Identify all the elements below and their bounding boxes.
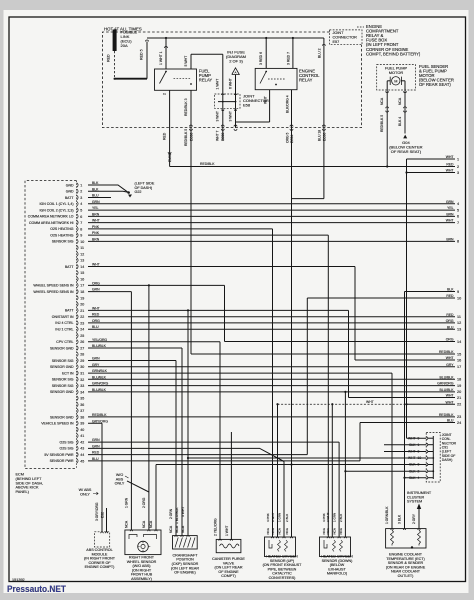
fuel pump motor symbol (392, 77, 400, 85)
svg-text:3 WHT: 3 WHT (181, 507, 185, 517)
wire riser ORG row17 to wheel sensor pin2 (148, 285, 150, 530)
svg-text:1: 1 (457, 157, 459, 161)
svg-text:2 ORG: 2 ORG (142, 497, 146, 508)
svg-text:1: 1 (418, 443, 420, 447)
joint connector C91 dashed box (426, 433, 440, 483)
wire horiz feed to E58 (191, 53, 223, 55)
bus wire hot feed (147, 37, 324, 39)
wire C91 pin 9 WHT (407, 437, 427, 439)
svg-text:RED/BLK: RED/BLK (439, 350, 454, 354)
ECM pin 44 (77, 452, 78, 457)
ECM pin 42 (77, 440, 78, 445)
svg-text:23: 23 (457, 415, 461, 419)
svg-text:WHT: WHT (92, 219, 100, 223)
svg-text:18: 18 (80, 290, 84, 294)
svg-text:37: 37 (80, 409, 84, 413)
svg-text:WHT: WHT (92, 306, 100, 310)
svg-text:1 WHT 1: 1 WHT 1 (159, 51, 163, 65)
svg-text:BLU: BLU (92, 194, 99, 198)
svg-text:SENSOR SIG: SENSOR SIG (52, 378, 74, 382)
svg-text:G22: G22 (135, 190, 142, 194)
wire C91 pin 10 WHT (188, 457, 426, 459)
heated oxygen sensor upstream box (265, 537, 296, 557)
wire ECM pin 43 O2S sig to upstream GRN diagonal (88, 448, 284, 461)
svg-text:COMM AREA NETWORK HI: COMM AREA NETWORK HI (29, 221, 74, 225)
ECM pin 22 (77, 314, 78, 319)
svg-text:SENSOR SIG: SENSOR SIG (52, 384, 74, 388)
wire to terminal 1 WHT (407, 158, 456, 160)
svg-text:3 WHT: 3 WHT (326, 513, 330, 523)
wire riser CKP WHT (187, 310, 189, 535)
svg-text:O2S HEATING: O2S HEATING (50, 227, 74, 231)
svg-text:44: 44 (80, 453, 84, 457)
svg-text:45: 45 (80, 459, 84, 463)
wire C91 pin 1 BLK (384, 444, 426, 446)
wire riser HO2S down PNK (327, 235, 329, 537)
svg-text:1 GRN/BLK: 1 GRN/BLK (385, 506, 389, 524)
wire to terminal 14 ORG (225, 341, 456, 343)
wire riser CKP BLU/BLK (181, 348, 183, 536)
ECM pin 39 (77, 421, 78, 426)
svg-text:RELAY: RELAY (199, 78, 213, 83)
svg-text:ON/START IN: ON/START IN (52, 315, 74, 319)
wire riser WHT terminal 1 chain to C91 (406, 159, 408, 438)
ECM pin 36 (77, 402, 78, 407)
svg-text:RED/BLK 3: RED/BLK 3 (184, 98, 188, 116)
svg-text:O2S SIG: O2S SIG (59, 440, 73, 444)
ECM pin 3 (77, 195, 78, 200)
svg-text:14: 14 (80, 265, 84, 269)
wire fusible link to RED 5 riser (115, 78, 147, 80)
wire ECM pin 31 ECT IN to ECT sensor riser (88, 372, 392, 374)
svg-text:2: 2 (418, 469, 420, 473)
svg-text:WHT: WHT (408, 436, 416, 440)
joint connector E57 dashed box (330, 30, 363, 45)
svg-text:BATT: BATT (65, 309, 75, 313)
wire ECM pin 21 BATT to risers (88, 309, 349, 311)
svg-text:5V SENSOR PWR: 5V SENSOR PWR (44, 453, 74, 457)
svg-text:12: 12 (457, 321, 461, 325)
wire ECM pin 39 vehicle speed to ABS riser (88, 422, 102, 424)
wire ECM pin 8 O2S heating to HO2S upstream (88, 228, 273, 230)
wire ECM pin 14 BATT to terminal 16 riser (88, 266, 355, 268)
svg-text:5: 5 (457, 208, 459, 212)
svg-text:GRN/BLK: GRN/BLK (92, 369, 108, 373)
svg-text:1: 1 (80, 183, 82, 187)
connector arcs at dashed border crossings (190, 125, 193, 127)
svg-text:E57: E57 (333, 40, 340, 44)
svg-text:RED: RED (106, 54, 110, 62)
ECT thermistor left (391, 530, 394, 546)
wire ECM pin 2 GND to G22 (88, 191, 128, 192)
svg-text:36: 36 (80, 403, 84, 407)
svg-text:BLU/BLK: BLU/BLK (440, 388, 455, 392)
svg-text:IGN COIL 1 (CYL 1,4): IGN COIL 1 (CYL 1,4) (40, 202, 74, 206)
svg-text:NCA: NCA (149, 520, 153, 528)
ECM pin 5 (77, 208, 78, 213)
svg-text:MANIFOLD): MANIFOLD) (327, 572, 347, 576)
svg-text:NCA: NCA (380, 97, 384, 105)
E58 internal bus (218, 101, 236, 103)
wire to terminal 20 BLU/BLK (88, 391, 455, 393)
wire motor right lead (404, 81, 406, 90)
svg-text:YEL: YEL (447, 206, 454, 210)
svg-text:SENSOR PWR: SENSOR PWR (50, 459, 74, 463)
wire to terminal 3 WHT (407, 172, 456, 174)
ECM pin 25 (77, 333, 78, 338)
svg-text:3: 3 (418, 463, 420, 467)
svg-text:10: 10 (418, 456, 422, 460)
svg-text:BLU: BLU (92, 457, 99, 461)
canister purge valve box (216, 539, 241, 552)
wire BLU elbow to ground chain (292, 198, 324, 200)
CKP hatch (175, 538, 178, 548)
svg-text:BLU/BLK: BLU/BLK (440, 375, 455, 379)
ECM pin 7 (77, 220, 78, 225)
wire ECM pin 1 GND to G22 (88, 185, 128, 192)
svg-text:WHT: WHT (446, 169, 454, 173)
svg-text:DASH): DASH) (442, 458, 453, 462)
fuel pump relay box (155, 69, 197, 90)
C91 internal bus (432, 436, 434, 479)
svg-text:3 GRY/ORG: 3 GRY/ORG (95, 502, 99, 521)
svg-text:SENSOR GND: SENSOR GND (50, 415, 74, 419)
svg-text:32: 32 (80, 378, 84, 382)
svg-text:1 WHT: 1 WHT (225, 526, 229, 536)
svg-text:6: 6 (80, 215, 82, 219)
svg-text:RED/BLK 5: RED/BLK 5 (380, 115, 384, 132)
hot-at-all-times dashed box (103, 32, 362, 128)
ECM pin 34 (77, 390, 78, 395)
svg-text:ORG: ORG (446, 319, 454, 323)
svg-text:26: 26 (80, 340, 84, 344)
svg-text:14: 14 (457, 340, 461, 344)
svg-text:NCA: NCA (333, 528, 337, 534)
svg-text:YEL: YEL (92, 206, 99, 210)
svg-text:42: 42 (80, 440, 84, 444)
svg-text:NCA: NCA (124, 520, 128, 528)
svg-text:GRN: GRN (92, 357, 100, 361)
wheel sensor inner bracket (129, 535, 157, 540)
svg-text:19: 19 (80, 296, 84, 300)
svg-text:WHT: WHT (366, 400, 374, 404)
svg-text:BRN: BRN (446, 213, 454, 217)
svg-text:GRY: GRY (446, 363, 454, 367)
svg-text:RED: RED (446, 294, 454, 298)
ECM pin 6 (77, 214, 78, 219)
svg-text:NCA: NCA (142, 520, 146, 528)
svg-text:COMPT, BEHIND BATTERY): COMPT, BEHIND BATTERY) (366, 51, 421, 56)
wire to terminal 24 BLU (360, 422, 455, 424)
arrow to ABS wire (93, 492, 98, 495)
INJ fuse triangle (232, 68, 240, 75)
svg-text:38: 38 (80, 415, 84, 419)
svg-text:WHEEL SPEED SENS IN: WHEEL SPEED SENS IN (33, 290, 74, 294)
wire to terminal 19 GRN/ORG (88, 385, 455, 387)
ECM pin 32 (77, 377, 78, 382)
svg-text:3: 3 (418, 450, 420, 454)
svg-text:A: A (234, 71, 236, 75)
svg-text:VEHICLE SPEED IN: VEHICLE SPEED IN (41, 422, 74, 426)
ECM pin 43 (77, 446, 78, 451)
svg-text:3 RED 6: 3 RED 6 (259, 52, 263, 65)
ECM pin 14 (77, 264, 78, 269)
svg-text:20A: 20A (121, 43, 128, 48)
ECM pin 24 (77, 327, 78, 332)
svg-text:WHT: WHT (446, 155, 454, 159)
svg-text:GRN: GRN (92, 438, 100, 442)
svg-text:9: 9 (418, 436, 420, 440)
svg-text:WHT: WHT (446, 400, 455, 404)
svg-text:24: 24 (457, 421, 461, 425)
engine control relay box (255, 68, 297, 89)
svg-text:BRN: BRN (92, 237, 100, 241)
wire riser HO2S up WHT (277, 404, 279, 537)
svg-text:ENGINE COMPT): ENGINE COMPT) (85, 565, 115, 569)
wire to terminal 9 BLK (405, 291, 456, 293)
ECM pin 19 (77, 296, 78, 301)
svg-text:2 YEL/ORG: 2 YEL/ORG (213, 518, 217, 536)
svg-text:RELAY: RELAY (299, 78, 313, 83)
svg-text:BLU: BLU (447, 419, 454, 423)
svg-text:WHT: WHT (92, 263, 100, 267)
svg-text:GRY/ORG: GRY/ORG (92, 419, 108, 423)
svg-text:RED: RED (92, 451, 100, 455)
wire relay pin2 RED down (169, 90, 171, 154)
svg-text:11: 11 (457, 315, 461, 319)
wire riser GRN row18 to wheel sensor pin1 (130, 292, 132, 530)
wire riser CPV YEL/ORG (219, 342, 221, 540)
svg-text:3 BLK: 3 BLK (398, 514, 402, 524)
svg-text:NCA: NCA (266, 528, 270, 534)
svg-text:3 WHT: 3 WHT (216, 111, 220, 121)
svg-text:2 OF 3): 2 OF 3) (229, 58, 243, 63)
svg-text:BLK: BLK (409, 463, 416, 467)
svg-text:7: 7 (80, 221, 82, 225)
wheel sensor tone ring (138, 541, 149, 552)
svg-text:15: 15 (457, 352, 461, 356)
svg-text:EC00: EC00 (221, 132, 225, 141)
wire riser HO2S down WHT (331, 404, 333, 537)
wire riser HO2S down BLK (344, 392, 346, 537)
svg-text:20: 20 (457, 390, 461, 394)
wire ECR pin6 WHT down to elbow (269, 90, 271, 122)
svg-text:JOINT: JOINT (333, 31, 345, 35)
diagonal wire w/o abs (127, 481, 149, 492)
svg-text:4 PNK: 4 PNK (266, 513, 270, 522)
right front wheel sensor box (125, 530, 161, 555)
svg-text:CONNECTOR: CONNECTOR (333, 35, 358, 39)
ECM pin 27 (77, 346, 78, 351)
svg-text:INJ 4 CTRL: INJ 4 CTRL (55, 321, 73, 325)
svg-text:RED/BLK: RED/BLK (439, 413, 454, 417)
wire ECT GRY to instrument cluster (418, 509, 420, 529)
svg-text:BLU 18: BLU 18 (318, 130, 322, 141)
wire motor left lead (386, 81, 388, 90)
svg-text:23: 23 (80, 321, 84, 325)
ABS control module dashed box (95, 532, 110, 547)
svg-text:MOTOR: MOTOR (389, 70, 404, 75)
svg-text:INJ 1 CTRL: INJ 1 CTRL (55, 328, 73, 332)
svg-text:GRN: GRN (446, 200, 454, 204)
wire ECM pin 27 sensor gnd to CKP riser (88, 347, 182, 349)
ECM pin 8 (77, 227, 78, 232)
ECM pin 16 (77, 277, 78, 282)
wire to terminal 6 BRN (88, 215, 455, 217)
svg-text:151392: 151392 (12, 578, 25, 582)
svg-text:6 WHT: 6 WHT (228, 77, 232, 89)
svg-text:3 RED 7: 3 RED 7 (287, 52, 291, 65)
svg-text:NCA: NCA (398, 97, 402, 105)
svg-text:4: 4 (80, 202, 82, 206)
svg-text:BLU/BLK: BLU/BLK (92, 388, 107, 392)
svg-text:ECM: ECM (16, 473, 24, 477)
svg-text:RED/BLK: RED/BLK (92, 413, 107, 417)
svg-text:35: 35 (80, 397, 84, 401)
svg-text:21: 21 (457, 396, 461, 400)
svg-text:25: 25 (80, 334, 84, 338)
wire ECR pin from bus right (292, 38, 294, 68)
svg-text:WHT: WHT (263, 95, 267, 104)
svg-text:E32: E32 (100, 512, 104, 518)
svg-text:1 GRN: 1 GRN (278, 513, 282, 522)
svg-text:SENSOR SIG: SENSOR SIG (52, 240, 74, 244)
svg-text:33: 33 (80, 384, 84, 388)
svg-text:SENSOR SIG: SENSOR SIG (52, 359, 74, 363)
svg-text:BRN: BRN (446, 238, 454, 242)
joint connector E58 dashed box (215, 94, 241, 108)
ECM pin 17 (77, 283, 78, 288)
svg-text:21: 21 (80, 309, 84, 313)
svg-text:6: 6 (457, 215, 459, 219)
svg-text:3 WHT: 3 WHT (228, 111, 232, 121)
svg-text:BLK: BLK (409, 476, 416, 480)
svg-text:BRN: BRN (92, 212, 100, 216)
ECM pin 23 (77, 321, 78, 326)
wire C91 pin 3 WHT (384, 451, 426, 453)
svg-text:9: 9 (457, 290, 459, 294)
svg-text:(BEHIND LEFT: (BEHIND LEFT (16, 477, 43, 481)
svg-text:18: 18 (457, 378, 461, 382)
svg-text:11: 11 (80, 246, 84, 250)
svg-text:24: 24 (80, 328, 84, 332)
ECM pin 15 (77, 270, 78, 275)
wire ECR pin from bus left (265, 38, 267, 68)
svg-text:31: 31 (80, 372, 84, 376)
crankshaft position sensor box (173, 536, 198, 549)
svg-text:1 WHT: 1 WHT (216, 78, 220, 90)
svg-text:EC04: EC04 (290, 134, 294, 143)
wire ECM pin 9 O2S heating to HO2S downstream (88, 234, 328, 236)
wire ECM pin 29 sensor sig to CKP riser (88, 360, 176, 362)
svg-text:COMM AREA NETWORK LO: COMM AREA NETWORK LO (28, 215, 74, 219)
svg-text:9: 9 (80, 234, 82, 238)
svg-text:O2S SIG: O2S SIG (59, 447, 73, 451)
svg-text:15: 15 (80, 271, 84, 275)
wire to terminal 12 ORG (88, 322, 455, 324)
wire C91 pin 2 BLK (345, 470, 426, 472)
svg-text:WHT: WHT (446, 219, 454, 223)
svg-text:NCA: NCA (339, 528, 343, 534)
svg-text:ORG: ORG (92, 319, 100, 323)
svg-text:30: 30 (80, 365, 84, 369)
wire riser ECT GRN/BLK (391, 373, 393, 528)
svg-text:PANEL): PANEL) (16, 490, 30, 494)
wire ECM pin 26 CPV control to purge valve riser (88, 341, 220, 343)
ECM pin 18 (77, 289, 78, 294)
svg-text:GRN: GRN (92, 288, 100, 292)
svg-text:41: 41 (80, 434, 84, 438)
svg-text:17: 17 (457, 365, 461, 369)
svg-text:8: 8 (80, 227, 82, 231)
wire ECM pin 18 wheel speed to wheel sensor (88, 291, 131, 293)
ECM pin 11 (77, 245, 78, 250)
svg-text:19: 19 (457, 384, 461, 388)
wire to terminal 5 YEL (88, 209, 455, 211)
ECM pin 37 (77, 408, 78, 413)
svg-text:ABOVE KICK: ABOVE KICK (16, 486, 39, 490)
svg-text:ECT IN: ECT IN (62, 371, 74, 375)
svg-text:BLU: BLU (92, 325, 99, 329)
svg-text:2 GRN: 2 GRN (169, 508, 173, 519)
ECM pin 12 (77, 252, 78, 257)
svg-text:YEL/ORG: YEL/ORG (92, 338, 107, 342)
svg-text:PNK: PNK (92, 231, 100, 235)
svg-text:5 WHT: 5 WHT (184, 55, 188, 67)
svg-text:29: 29 (80, 359, 84, 363)
ECM pin 26 (77, 339, 78, 344)
ECM pin 20 (77, 302, 78, 307)
ECM pin 1 (77, 183, 78, 188)
svg-text:22: 22 (80, 315, 84, 319)
svg-text:NCA: NCA (181, 525, 185, 533)
arrow w/o abs (125, 476, 129, 478)
svg-text:RED: RED (446, 313, 454, 317)
wire relay pin3 RED/BLK long vertical to terminal 15 (190, 90, 192, 354)
wire E58 left pin down across border (222, 108, 224, 140)
wire to terminal 2 RED (170, 166, 455, 168)
wire to terminal 7 WHT (88, 222, 455, 224)
wire terminal 22 WHT dashed splice (407, 403, 456, 405)
wire ECM pin 17 wheel speed to T14 riser and wheel sensor (88, 284, 225, 286)
wire ECM pin 44 5V sensor pwr to T10 riser (88, 454, 307, 456)
ECM pin 31 (77, 371, 78, 376)
wire to terminal 16 WHT (355, 359, 455, 361)
svg-text:RED: RED (446, 163, 454, 167)
wire riser CPV WHT (230, 432, 232, 539)
svg-text:2 BLK: 2 BLK (285, 514, 289, 522)
svg-text:BLK: BLK (447, 288, 454, 292)
ECM pin 29 (77, 358, 78, 363)
wire relay pin5 from joint connector E58 feed (190, 54, 192, 69)
ECM pin 2 (77, 189, 78, 194)
svg-text:BLK: BLK (409, 469, 416, 473)
wire fuse to E58 (235, 75, 237, 95)
svg-text:39: 39 (80, 422, 84, 426)
fuel pump relay switch (160, 72, 167, 84)
wire RED elbow to horizontal (169, 154, 171, 167)
svg-text:BLK/ORG 4: BLK/ORG 4 (285, 95, 289, 113)
svg-text:13: 13 (457, 328, 461, 332)
wire C91 pin 3 BLK (156, 464, 426, 466)
svg-text:2: 2 (80, 190, 82, 194)
svg-text:OF REAR SEAT): OF REAR SEAT) (391, 149, 422, 154)
wire to terminal 8 BRN (88, 240, 455, 242)
wire to terminal 15 RED/BLK (191, 353, 455, 355)
svg-text:RED/BLK 5: RED/BLK 5 (184, 129, 188, 146)
svg-text:GRN/ORG: GRN/ORG (92, 382, 109, 386)
svg-text:BATT: BATT (65, 265, 75, 269)
